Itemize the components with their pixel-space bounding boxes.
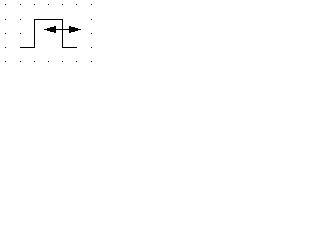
arrowhead right	[69, 26, 78, 33]
wire: pulse top edge	[34, 19, 63, 20]
wire: pulse left baseline	[20, 47, 35, 48]
pulse-width arrow shaft	[44, 29, 81, 30]
wire: pulse right baseline	[62, 47, 77, 48]
wire: pulse falling edge	[62, 19, 63, 48]
wire: pulse rising edge	[34, 19, 35, 48]
arrowhead left	[47, 26, 56, 33]
